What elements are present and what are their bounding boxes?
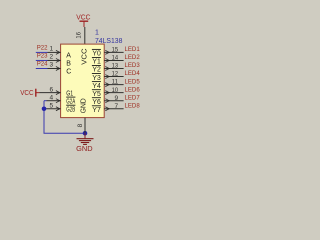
svg-text:1: 1 [95,30,99,37]
pin 1 lead [48,51,61,53]
pin 12 lead [104,76,123,78]
IC U1 74LS138 body [61,44,105,118]
svg-text:LED6: LED6 [125,86,141,93]
svg-text:1: 1 [49,45,53,52]
svg-text:LED7: LED7 [125,94,141,101]
pin 4 lead [47,100,61,102]
pin 2 arrowhead [56,58,60,62]
svg-text:Y6: Y6 [92,99,101,106]
svg-text:3: 3 [49,62,53,69]
pin 9 arrowhead [105,99,109,103]
svg-text:P22: P22 [37,44,48,51]
wire enable net to ground node [44,101,85,134]
svg-text:Y5: Y5 [92,91,101,98]
pin 3 arrowhead [56,67,60,71]
pin 6 arrowhead [56,91,60,95]
svg-text:G1: G1 [66,91,73,98]
svg-text:15: 15 [112,47,119,54]
svg-text:B: B [66,61,71,68]
power symbol VCC (left) [20,89,39,98]
svg-text:7: 7 [114,103,118,110]
pin 7 lead [104,108,123,110]
pin 11 arrowhead [105,83,109,87]
svg-text:G2A: G2A [66,99,75,106]
svg-text:GND: GND [80,98,87,113]
svg-text:12: 12 [112,71,119,78]
pin 15 arrowhead [105,50,109,54]
svg-text:14: 14 [112,55,119,62]
pin 7 arrowhead [105,107,109,111]
pin 3 lead [48,68,61,70]
svg-text:A: A [66,52,71,59]
wire P22 [36,51,48,53]
pin 5 arrowhead [56,107,60,111]
pin 13 lead [104,68,123,70]
svg-text:13: 13 [112,63,119,70]
svg-text:8: 8 [77,123,84,127]
svg-text:9: 9 [114,95,118,102]
pin 2 lead [48,59,61,61]
junction at ground node [83,131,88,136]
pin 4 arrowhead [56,99,60,103]
ground symbol GND [77,133,94,144]
pin 14 arrowhead [105,58,109,62]
svg-text:LED2: LED2 [125,54,141,61]
pin 5 lead [47,108,61,110]
wire G2A (blue) [44,100,47,102]
svg-text:74LS138: 74LS138 [95,38,123,45]
pin 11 lead [104,84,123,86]
svg-text:P23: P23 [37,53,48,60]
svg-text:GND: GND [76,146,93,153]
svg-text:2: 2 [49,54,53,61]
svg-text:Y4: Y4 [92,83,101,90]
svg-text:10: 10 [112,87,119,94]
junction at G2B pin [42,106,47,111]
pin 12 arrowhead [105,75,109,79]
wire P24 [36,68,48,70]
svg-text:LED8: LED8 [125,103,141,110]
pin 14 lead [104,59,123,61]
svg-text:C: C [66,69,71,76]
svg-text:LED1: LED1 [125,46,141,53]
pin 9 lead [104,100,123,102]
svg-text:Y0: Y0 [92,51,101,58]
pin 1 arrowhead [56,50,60,54]
svg-text:VCC: VCC [76,14,90,21]
svg-text:VCC: VCC [81,49,88,65]
svg-text:4: 4 [49,94,53,101]
svg-text:VCC: VCC [20,90,33,97]
pin 15 lead [104,51,123,53]
svg-text:5: 5 [49,103,53,110]
pin 6 lead [40,92,61,94]
svg-text:LED3: LED3 [125,62,141,69]
wire G2B (blue) [44,108,47,110]
pin 10 arrowhead [105,91,109,95]
svg-text:Y7: Y7 [92,107,101,114]
power symbol VCC (top) [76,14,90,27]
svg-text:G2B: G2B [66,107,75,114]
pin 8 lead (bottom) [84,118,86,134]
svg-text:LED4: LED4 [125,70,141,77]
svg-text:11: 11 [112,79,119,86]
wire VCC to pin 16 [84,27,86,45]
svg-text:Y1: Y1 [92,59,101,66]
svg-text:Y3: Y3 [92,75,101,82]
svg-text:P24: P24 [37,61,48,68]
svg-text:LED5: LED5 [125,78,141,85]
pin 10 lead [104,92,123,94]
wire P23 [36,59,48,61]
svg-text:16: 16 [76,32,83,39]
svg-text:6: 6 [49,86,53,93]
pin 13 arrowhead [105,67,109,71]
svg-text:Y2: Y2 [92,67,101,74]
